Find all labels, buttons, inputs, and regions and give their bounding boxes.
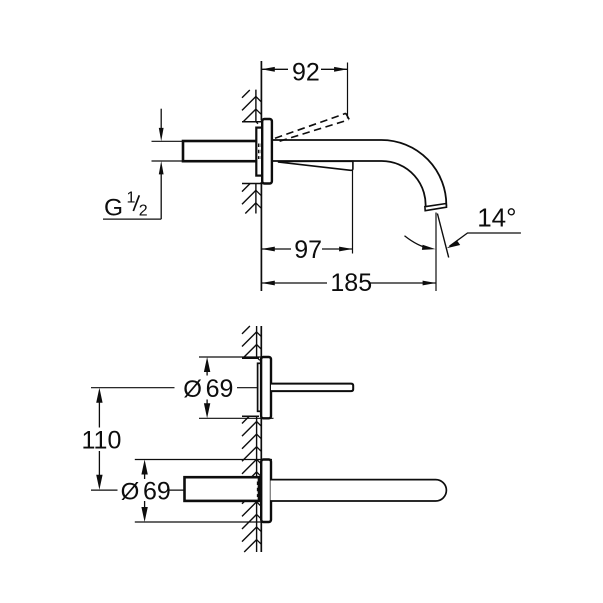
thread dashes <box>259 144 262 160</box>
dim 92 arrows <box>261 67 347 72</box>
svg-text:G: G <box>104 194 123 221</box>
wall hatch band lower <box>242 502 257 553</box>
wall hatch band middle <box>242 416 257 480</box>
14 deg arc <box>405 236 431 249</box>
handle escutcheon <box>261 357 271 418</box>
wall hole edge top <box>242 121 263 123</box>
concealed body <box>256 128 263 176</box>
svg-text:69: 69 <box>206 375 234 403</box>
dim Ø69 spout line + arrows <box>144 465 146 517</box>
handle lever rod <box>271 384 353 392</box>
svg-text:Ø: Ø <box>183 376 202 403</box>
centerline spout <box>91 489 184 491</box>
wall hole edge bottom <box>242 183 263 185</box>
dim 185 arrows <box>261 281 436 286</box>
wall hatch band upper <box>242 326 257 358</box>
svg-text:92: 92 <box>292 58 320 86</box>
centerline handle <box>91 387 258 389</box>
dashed open lever <box>275 113 349 141</box>
wall surface line B <box>260 61 262 291</box>
14 deg leader <box>450 233 521 246</box>
plaster ticks lower <box>256 190 262 208</box>
spout underside wedge <box>279 161 353 170</box>
svg-text:1: 1 <box>127 190 136 207</box>
handle valve plate <box>258 363 262 411</box>
svg-text:110: 110 <box>82 426 122 454</box>
dim 110 line + arrows <box>98 394 100 485</box>
plaster ticks upper <box>256 97 262 124</box>
dim 97 right extension <box>352 171 354 254</box>
dim Ø69 handle ext lines <box>199 357 274 418</box>
svg-text:97: 97 <box>294 236 322 264</box>
dim 185 right extension <box>435 213 437 292</box>
14 deg angled line <box>437 214 448 258</box>
svg-text:185: 185 <box>330 269 372 297</box>
dim 92 right extension <box>347 63 349 119</box>
G 1/2 fraction slash <box>133 195 139 211</box>
spout outer contour <box>272 140 446 206</box>
dim Ø69 handle line + arrows <box>206 362 208 413</box>
wall hatch lower band <box>242 184 256 214</box>
escutcheon (side view) <box>262 119 272 184</box>
spout tube <box>271 480 447 501</box>
dim Ø69 spout ext lines <box>135 460 272 523</box>
dim 185 line <box>261 282 436 284</box>
wall surface line B <box>260 326 262 552</box>
spout escutcheon <box>261 460 271 523</box>
lever thickness extension lines <box>152 141 184 161</box>
plaster ticks <box>257 332 262 544</box>
dim 97 arrows <box>261 247 352 252</box>
svg-text:Ø: Ø <box>121 479 140 506</box>
spout inner contour <box>272 161 426 210</box>
dim 92 line <box>261 68 347 70</box>
svg-text:14°: 14° <box>477 203 516 233</box>
wall finish line A upper <box>255 90 257 214</box>
svg-text:2: 2 <box>139 202 148 219</box>
svg-text:69: 69 <box>143 478 171 506</box>
wall finish line A <box>256 326 258 552</box>
wall hatch upper band <box>242 90 256 122</box>
spout supply body <box>185 477 260 501</box>
arrow to lever top <box>160 109 162 136</box>
dim 97 line <box>261 248 352 250</box>
thread dashes spout <box>258 482 261 498</box>
arrow to lever bottom + G 1/2 leader <box>103 167 161 220</box>
wall hole edges (handle valve) <box>242 358 259 416</box>
spout tip cap <box>425 204 447 211</box>
lever body (behind wall, G 1/2 connector) <box>183 141 259 161</box>
